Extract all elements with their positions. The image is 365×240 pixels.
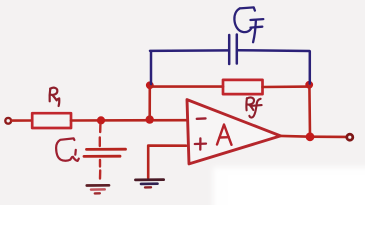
label Ci bbox=[56, 138, 79, 161]
wire op-amp output bbox=[281, 136, 346, 137]
input terminal (Vin) bbox=[5, 118, 11, 124]
label CF bbox=[234, 7, 263, 42]
label Rf bbox=[246, 97, 261, 117]
node junction 1 (Ci tap) bbox=[97, 116, 105, 124]
ground (plus input) bbox=[136, 180, 164, 188]
op-amp A bbox=[187, 100, 281, 164]
wire plus input to ground bbox=[148, 146, 186, 178]
resistor Rf bbox=[223, 80, 263, 94]
wire Rf right bbox=[263, 85, 310, 88]
node output junction bbox=[306, 132, 315, 141]
wire feedback right down to output node bbox=[308, 85, 311, 137]
op-amp minus sign bbox=[197, 117, 206, 120]
wire input to R1 bbox=[12, 119, 32, 122]
wire Rf left bbox=[150, 85, 223, 88]
capacitor Cf plates bbox=[228, 35, 231, 64]
capacitor Cf feedback loop (blue wires) bbox=[150, 35, 310, 85]
op-amp plus sign bbox=[195, 138, 206, 149]
node feedback left bbox=[146, 81, 154, 89]
ground (below Ci) bbox=[87, 185, 109, 193]
wire junction2 up to feedback node bbox=[148, 85, 151, 119]
node feedback right bbox=[305, 81, 313, 89]
wire R1 to op-amp minus input bbox=[71, 119, 186, 122]
label A bbox=[217, 125, 232, 145]
resistor R1 bbox=[32, 113, 71, 128]
label R1 bbox=[50, 88, 60, 106]
white patch bottom-right bbox=[213, 167, 365, 227]
output terminal (Vout) bbox=[347, 134, 353, 140]
node junction 2 (feedback tap) bbox=[146, 115, 154, 123]
dashed wire to Ci bbox=[99, 125, 102, 179]
capacitor Ci bbox=[84, 149, 126, 156]
